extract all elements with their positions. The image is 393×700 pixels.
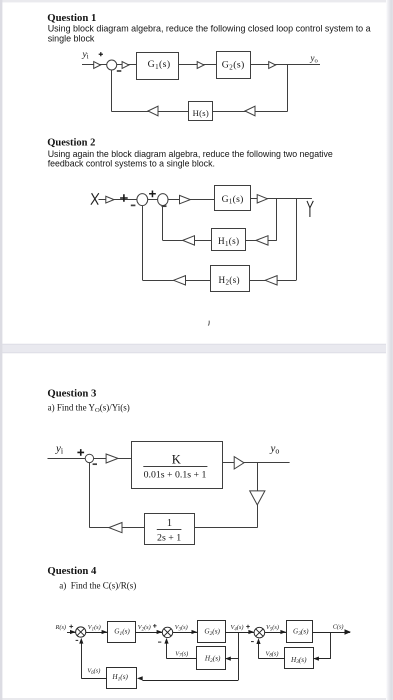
svg-text:G1(s): G1(s) [148, 59, 171, 71]
svg-text:1: 1 [167, 518, 172, 529]
svg-text:Question 3: Question 3 [47, 387, 96, 399]
svg-text:G1(s): G1(s) [114, 627, 130, 636]
svg-text:H(s): H(s) [193, 108, 209, 118]
svg-text:a) Find the YO(s)/Yi(s): a) Find the YO(s)/Yi(s) [48, 403, 130, 415]
svg-text:K: K [172, 453, 181, 467]
svg-text:H1(s): H1(s) [111, 673, 128, 682]
svg-text:G2(s): G2(s) [204, 627, 220, 636]
svg-text:Using block diagram algebra, r: Using block diagram algebra, reduce the … [48, 24, 371, 34]
svg-text:2s + 1: 2s + 1 [157, 533, 181, 544]
svg-text:H2(s): H2(s) [204, 655, 221, 664]
svg-text:single block: single block [48, 34, 95, 44]
svg-text:C(s): C(s) [333, 624, 344, 631]
svg-text:Using again the block diagram: Using again the block diagram algebra, r… [48, 149, 333, 159]
svg-text:a) Find the C(s)/R(s): a) Find the C(s)/R(s) [59, 580, 136, 590]
svg-text:feedback control systems to a: feedback control systems to a single blo… [48, 158, 215, 168]
svg-text:Question 2: Question 2 [47, 138, 95, 149]
svg-text:G2(s): G2(s) [222, 59, 245, 71]
svg-text:G1(s): G1(s) [222, 194, 244, 206]
svg-text:G3(s): G3(s) [293, 627, 309, 636]
svg-text:Question 4: Question 4 [47, 565, 97, 577]
svg-text:Question 1: Question 1 [47, 12, 96, 24]
svg-text:0.01s + 0.1s + 1: 0.01s + 0.1s + 1 [144, 469, 207, 480]
svg-text:H3(s): H3(s) [290, 656, 307, 665]
svg-text:R(s): R(s) [55, 624, 67, 631]
